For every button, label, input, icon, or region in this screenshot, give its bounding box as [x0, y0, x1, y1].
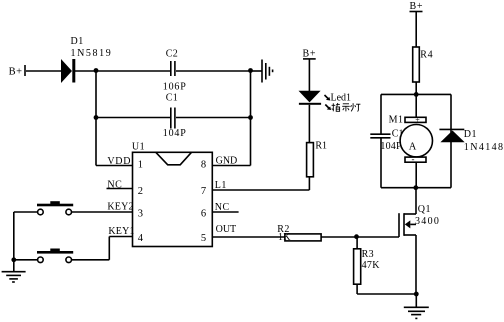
svg-text:2: 2 — [138, 186, 143, 197]
svg-text:104P: 104P — [163, 128, 187, 139]
svg-text:R3: R3 — [362, 249, 374, 260]
svg-text:U1: U1 — [132, 142, 145, 153]
svg-text:C1: C1 — [166, 92, 178, 103]
svg-text:B+: B+ — [9, 67, 23, 78]
svg-text:5: 5 — [201, 233, 206, 244]
svg-text:OUT: OUT — [216, 224, 237, 235]
svg-text:NC: NC — [107, 179, 122, 190]
svg-text:1N5819: 1N5819 — [71, 48, 113, 59]
svg-text:1K: 1K — [278, 232, 291, 243]
svg-text:6: 6 — [201, 208, 206, 219]
svg-text:C2: C2 — [166, 49, 178, 60]
svg-text:-: - — [412, 154, 415, 164]
svg-text:106P: 106P — [163, 82, 187, 93]
svg-text:D1: D1 — [71, 36, 84, 47]
svg-text:GND: GND — [216, 156, 238, 167]
svg-text:3: 3 — [138, 208, 143, 219]
svg-text:KEY1: KEY1 — [108, 226, 134, 237]
svg-text:KEY2: KEY2 — [107, 202, 133, 213]
svg-text:M1: M1 — [389, 114, 404, 125]
svg-text:Led1: Led1 — [331, 92, 352, 103]
svg-text:R1: R1 — [315, 141, 327, 152]
svg-text:47K: 47K — [362, 260, 381, 271]
svg-text:4: 4 — [138, 233, 144, 244]
svg-text:R4: R4 — [420, 50, 433, 61]
svg-text:8: 8 — [201, 160, 206, 171]
svg-text:B+: B+ — [303, 49, 317, 60]
svg-text:Q1: Q1 — [418, 204, 431, 215]
svg-text:L1: L1 — [215, 180, 227, 191]
svg-text:1N4148: 1N4148 — [464, 142, 504, 153]
svg-text:NC: NC — [215, 202, 230, 213]
svg-text:B+: B+ — [410, 1, 424, 12]
svg-text:104P: 104P — [380, 141, 402, 152]
svg-text:+: + — [415, 116, 420, 125]
svg-text:7: 7 — [201, 186, 206, 197]
svg-text:D1: D1 — [464, 129, 477, 140]
svg-text:VDD: VDD — [107, 156, 131, 167]
svg-text:1: 1 — [138, 160, 143, 171]
svg-text:3400: 3400 — [415, 216, 440, 227]
svg-text:A: A — [409, 141, 417, 152]
